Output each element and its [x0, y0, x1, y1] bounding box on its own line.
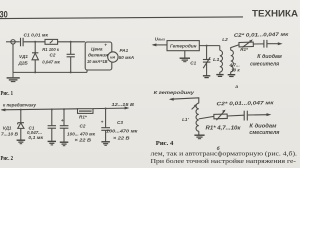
svg-text:Рис. 4: Рис. 4	[156, 141, 174, 147]
svg-text:С2: С2	[50, 52, 56, 57]
wire: C2* to output arrow	[267, 43, 279, 45]
oscillator box G1	[167, 41, 199, 51]
junction node C2 bottom	[70, 71, 72, 73]
svg-text:10 к: 10 к	[231, 67, 240, 72]
svg-text:С3: С3	[117, 120, 123, 125]
ground under box fig4a	[180, 58, 190, 62]
svg-text:лем, так и автотрансформаторну: лем, так и автотрансформаторную (рис. 4,…	[151, 150, 298, 157]
resistor R1* fig4a	[239, 42, 253, 47]
svg-text:0,1 мк: 0,1 мк	[28, 135, 43, 140]
svg-text:L2: L2	[222, 37, 228, 42]
ground C2 fig2	[60, 142, 69, 146]
svg-text:50 мкА: 50 мкА	[119, 55, 134, 60]
wire: to oscillator	[171, 98, 199, 103]
meter dial PA1	[108, 52, 118, 62]
svg-text:VД1: VД1	[3, 126, 12, 131]
wire: C1 branch fig2	[51, 109, 53, 125]
wire: C2* to output fig4b	[248, 114, 269, 116]
junction node VD1 bottom	[34, 71, 36, 73]
svg-text:Uвых: Uвых	[155, 36, 165, 41]
junction node R1-C2	[70, 41, 72, 43]
svg-text:К гетеродину: К гетеродину	[154, 90, 195, 96]
arrow fig4a output	[278, 42, 283, 45]
svg-text:Рис. 1: Рис. 1	[1, 91, 14, 97]
capacitor C2* fig4a	[263, 40, 265, 48]
capacitor C2	[67, 53, 75, 55]
svg-text:К диодам: К диодам	[249, 123, 276, 129]
resistor R1	[45, 39, 58, 44]
ground C1 fig2	[48, 141, 56, 145]
capacitor C2 fig2	[60, 125, 69, 127]
arrow fig4b output	[267, 113, 272, 116]
svg-text:× 22 В: × 22 В	[75, 138, 92, 143]
svg-text:10 мкА=1В: 10 мкА=1В	[87, 59, 108, 64]
svg-text:С1 0,01 мк: С1 0,01 мк	[24, 33, 49, 38]
diode VD1	[32, 52, 38, 54]
svg-text:12...15 В: 12...15 В	[112, 102, 135, 107]
svg-text:× 22 В: × 22 В	[113, 136, 130, 141]
svg-text:100... 470 мк: 100... 470 мк	[67, 132, 96, 137]
svg-text:+: +	[104, 43, 107, 48]
svg-text:R1* 4,7...10к: R1* 4,7...10к	[206, 126, 242, 132]
svg-text:деления: деления	[88, 53, 109, 58]
svg-text:L1: L1	[213, 57, 220, 62]
junction C3 fig2	[105, 108, 107, 110]
ground C3 fig2	[101, 142, 110, 146]
svg-text:мА: мА	[110, 56, 116, 60]
ground L2 fig4a	[228, 75, 236, 77]
wire: R1* to C2*	[253, 43, 263, 45]
svg-text:При более точной настройке нап: При более точной настройке напряжения ге…	[151, 158, 297, 165]
arrow fig2 left	[1, 108, 6, 111]
wire: antenna to C1	[15, 41, 20, 43]
svg-text:смесителя: смесителя	[250, 62, 279, 68]
svg-text:R1*: R1*	[79, 114, 87, 119]
junction C1 fig2	[51, 108, 53, 110]
arrow head R1* adjust fig4b	[222, 110, 226, 113]
ground fig1	[7, 72, 20, 81]
arrow fig4b left	[169, 98, 174, 101]
arrow head tap fig4b	[194, 104, 198, 108]
ground L1' fig4b	[194, 135, 204, 139]
svg-text:С1: С1	[190, 60, 196, 65]
svg-text:С2: С2	[80, 123, 86, 128]
svg-text:к передатчику: к передатчику	[3, 103, 36, 108]
zener diode VD1 fig2	[18, 122, 24, 124]
junction VD1 fig2	[20, 109, 22, 111]
wire: fig2 top rail	[2, 109, 78, 110]
wire: box ground stub	[184, 51, 186, 58]
svg-text:7...10 В: 7...10 В	[1, 131, 19, 136]
svg-text:R1 100 к: R1 100 к	[42, 47, 59, 52]
antenna terminal X1	[11, 40, 15, 44]
svg-text:+: +	[61, 119, 64, 124]
ground VD1 fig2	[17, 140, 26, 144]
wire: Uout to oscillator box	[153, 44, 167, 46]
wire: C3 branch fig2	[105, 109, 107, 128]
wire: box output to L1	[199, 45, 220, 47]
svg-text:Рис. 2: Рис. 2	[1, 156, 14, 162]
svg-text:РА1: РА1	[120, 48, 129, 53]
wire: C1 var branch	[206, 46, 208, 60]
wire: fig1 left rail	[12, 44, 14, 72]
resistor R1* fig4b	[214, 114, 227, 119]
svg-text:С2* 0,01...0,047 мк: С2* 0,01...0,047 мк	[234, 32, 289, 39]
inductor L1 fig4a	[219, 46, 221, 51]
header rule	[0, 17, 243, 19]
capacitor C1	[20, 38, 22, 47]
wire: C2 branch fig2	[63, 109, 65, 125]
capacitor C2* fig4b	[243, 111, 245, 121]
variable capacitor C1 fig4a	[203, 59, 211, 61]
svg-text:100...470 мк: 100...470 мк	[106, 128, 138, 133]
svg-text:30: 30	[0, 9, 8, 19]
svg-text:а: а	[235, 85, 238, 90]
junction C1 var	[206, 45, 208, 47]
inductor L2 fig4a	[231, 50, 234, 72]
junction node C1-VD1	[34, 41, 36, 43]
arrow fig4a left	[152, 43, 157, 46]
capacitor C1 fig2	[48, 125, 56, 127]
svg-text:К диодам: К диодам	[257, 54, 282, 60]
wire: VD1 branch	[34, 42, 36, 53]
tap arrow fig4b	[192, 105, 197, 110]
capacitor C3 fig2	[101, 127, 110, 129]
label C2* value fig4b	[216, 100, 274, 107]
wire: R1* to C2* fig4b	[227, 114, 244, 117]
wire: fig1 input stub	[6, 41, 11, 43]
svg-text:0,047 мк: 0,047 мк	[42, 60, 60, 65]
svg-text:VД1: VД1	[19, 54, 28, 59]
ground L1 fig4a	[216, 75, 223, 77]
svg-text:Гетеродин: Гетеродин	[170, 44, 197, 49]
svg-text:Д2Б: Д2Б	[18, 61, 29, 66]
svg-text:С2* 0,01...0,047 мк: С2* 0,01...0,047 мк	[216, 100, 274, 107]
inductor L1' fig4b	[196, 103, 199, 131]
svg-text:смесителя: смесителя	[249, 130, 279, 136]
svg-text:Цена: Цена	[91, 46, 103, 51]
wire: VD1 branch fig2	[20, 110, 22, 123]
ground C1 fig4a	[203, 76, 210, 78]
arrow head R1* adjust fig4a	[249, 39, 253, 42]
svg-text:L1': L1'	[182, 117, 189, 122]
meter box PA1	[85, 42, 112, 70]
wire: R1 to meter box	[58, 41, 86, 43]
arrow fig2 right 12-15V	[125, 107, 130, 110]
wire: C1 to R1	[24, 41, 45, 43]
resistor R1* fig2	[78, 109, 94, 114]
svg-text:ТЕХНИКА: ТЕХНИКА	[252, 8, 299, 18]
junction C2 fig2	[63, 108, 65, 110]
svg-text:+: +	[101, 120, 104, 125]
wire: L2 top to R1*	[231, 45, 239, 51]
svg-text:R1*: R1*	[240, 47, 248, 52]
label C2* value fig4a	[234, 32, 289, 39]
wire: C2 branch	[70, 42, 72, 54]
wire: fig1 bottom rail	[13, 71, 87, 73]
wire: tap to R1* fig4b	[199, 116, 214, 119]
